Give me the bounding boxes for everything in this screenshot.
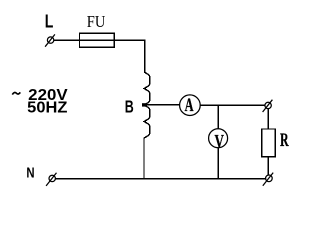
svg-text:V: V [215, 132, 225, 152]
svg-text:R: R [280, 131, 289, 151]
svg-text:B: B [125, 97, 134, 117]
svg-text:50HZ: 50HZ [27, 100, 68, 117]
svg-text:FU: FU [87, 12, 106, 31]
svg-text:A: A [185, 96, 194, 116]
svg-text:L: L [45, 12, 54, 32]
svg-text:N: N [26, 165, 34, 181]
